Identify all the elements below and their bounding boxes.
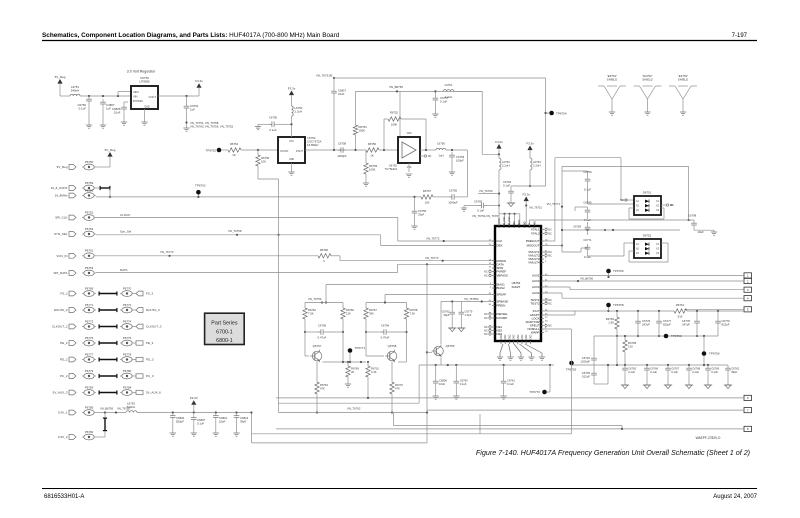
svg-text:AUX_VDD: AUX_VDD — [508, 216, 511, 228]
resistor R6756b 1K — [366, 142, 379, 158]
svg-text:1.0pF: 1.0pF — [465, 313, 472, 317]
svg-text:C6750: C6750 — [269, 116, 278, 120]
svg-text:130: 130 — [628, 344, 633, 348]
svg-text:C6768: C6768 — [692, 367, 700, 371]
svg-text:P6750: P6750 — [85, 160, 94, 164]
shield E6752 — [634, 74, 662, 115]
svg-text:VDD: VDD — [407, 133, 412, 135]
svg-text:F3.3v: F3.3v — [526, 141, 534, 145]
svg-text:C6765: C6765 — [474, 200, 483, 204]
ground tri — [685, 385, 693, 389]
svg-text:NC: NC — [548, 298, 552, 302]
connector pair P6783/P6784 5V_AUX — [53, 385, 162, 395]
resistor R6761 510 — [674, 303, 744, 319]
svg-text:WARP: WARP — [531, 331, 540, 335]
offpage 4 — [544, 293, 752, 301]
wire opamp out — [420, 149, 436, 151]
inductor L6752 — [498, 158, 510, 195]
ground fan under IC — [497, 344, 545, 360]
connector P6756 16_8MHz — [55, 188, 96, 198]
wire rail right1 — [544, 158, 634, 241]
capacitor C6750c — [562, 170, 634, 204]
ground — [449, 172, 455, 175]
svg-text:TP6770: TP6770 — [529, 390, 540, 394]
svg-text:1K: 1K — [370, 154, 374, 158]
svg-text:P6775: P6775 — [85, 336, 94, 340]
svg-text:NC: NC — [484, 316, 488, 320]
node VN_T6759 — [308, 297, 327, 304]
wire — [594, 336, 617, 365]
svg-text:GND: GND — [525, 334, 528, 340]
svg-text:R6768: R6768 — [410, 308, 418, 312]
svg-text:SHIELD: SHIELD — [642, 78, 652, 82]
resistor R6762 7.5K — [303, 303, 317, 333]
connector pair P6775/P6776 PE — [60, 336, 154, 346]
svg-text:IGK2T: IGK2T — [512, 285, 521, 289]
ground — [345, 384, 351, 387]
svg-text:P6756: P6756 — [85, 188, 94, 192]
inductor L6756 — [436, 142, 446, 158]
svg-text:P6754: P6754 — [85, 227, 94, 231]
shield E6753 — [669, 74, 697, 115]
svg-text:2.2uH: 2.2uH — [533, 163, 540, 167]
wire VN_B6756 rail — [356, 85, 483, 93]
wire — [109, 157, 111, 167]
inductor L6750 — [292, 106, 303, 137]
svg-text:R6754: R6754 — [230, 142, 239, 146]
svg-text:MODOUT: MODOUT — [527, 244, 540, 248]
ground — [86, 125, 92, 128]
connector P6782 9.3V_2 — [58, 430, 105, 440]
svg-text:1uF: 1uF — [106, 107, 111, 111]
svg-text:Schematics, Component Location: Schematics, Component Location Diagrams,… — [42, 32, 340, 39]
svg-text:39pF: 39pF — [443, 313, 449, 317]
svg-text:P6776: P6776 — [123, 336, 132, 340]
wire D6751 bottom loop — [629, 208, 664, 219]
connector P6753 SPI_DATA — [53, 266, 127, 276]
svg-text:Q6758: Q6758 — [388, 344, 397, 348]
svg-text:R6756: R6756 — [368, 142, 377, 146]
ground — [406, 174, 412, 177]
svg-text:100pF: 100pF — [456, 158, 464, 162]
capacitor C6779 — [715, 311, 730, 336]
svg-text:CLK: CLK — [497, 239, 503, 243]
testpoint TP6770 — [529, 365, 550, 394]
svg-text:1uF: 1uF — [190, 108, 195, 112]
resistor R6764 1.5K — [606, 311, 619, 337]
connector pair P6779/P6780 PC — [60, 369, 154, 379]
svg-text:DOUTA_3: DOUTA_3 — [146, 308, 160, 312]
svg-text:6700-1: 6700-1 — [216, 330, 233, 336]
svg-text:VN_T6762: VN_T6762 — [347, 407, 361, 411]
svg-text:0.47uF: 0.47uF — [381, 336, 390, 340]
svg-text:16_8_CONT: 16_8_CONT — [51, 186, 68, 190]
svg-text:DVDD: DVDD — [513, 221, 516, 228]
svg-text:R6761: R6761 — [676, 303, 685, 307]
wire iout rail — [544, 310, 610, 315]
svg-text:P6777: P6777 — [85, 352, 94, 356]
capacitor C6768 bypass — [686, 365, 700, 385]
svg-text:R6767: R6767 — [369, 308, 377, 312]
svg-text:C6794: C6794 — [381, 324, 390, 328]
svg-text:TP6754: TP6754 — [556, 112, 567, 116]
svg-text:0.1uF: 0.1uF — [197, 421, 204, 425]
svg-text:F9.3V: F9.3V — [190, 396, 198, 400]
testpoint TP6756 — [702, 336, 720, 356]
svg-text:P6782: P6782 — [85, 430, 94, 434]
svg-text:PRE_VDD: PRE_VDD — [503, 216, 506, 228]
wire — [446, 149, 468, 151]
svg-text:16.8MHz: 16.8MHz — [307, 143, 319, 147]
wire 442.9 — [252, 442, 428, 444]
wire VOUT — [158, 95, 199, 97]
power F9.3V arrow — [190, 396, 198, 413]
svg-text:C6750: C6750 — [583, 170, 592, 174]
svg-text:TP6762: TP6762 — [195, 184, 206, 188]
svg-text:CLOCK: CLOCK — [120, 213, 130, 217]
svg-text:TP6752: TP6752 — [205, 149, 216, 153]
svg-text:XVDD: XVDD — [524, 221, 527, 228]
resistor R6755 100K — [364, 150, 378, 183]
svg-text:P6779: P6779 — [85, 369, 94, 373]
ground tri — [664, 385, 672, 389]
svg-text:P6784: P6784 — [123, 385, 132, 389]
svg-text:2.2uH: 2.2uH — [295, 109, 302, 113]
wire — [379, 149, 398, 151]
svg-text:LP3985: LP3985 — [139, 80, 150, 84]
svg-text:PREIN: PREIN — [497, 304, 506, 308]
wire Y6750 out — [305, 149, 366, 151]
svg-text:1000pF: 1000pF — [448, 200, 458, 204]
svg-text:7-197: 7-197 — [732, 33, 748, 39]
svg-text:VCC: VCC — [289, 141, 294, 143]
wire vertical 427 — [426, 264, 428, 443]
resistor R6770 47K — [390, 362, 404, 414]
svg-text:C6765: C6765 — [628, 367, 636, 371]
wire — [258, 166, 279, 413]
svg-text:NC: NC — [548, 228, 552, 232]
svg-text:47K: 47K — [395, 386, 400, 390]
svg-text:VN_B6756: VN_B6756 — [389, 85, 403, 89]
wire opamp vdd — [399, 91, 401, 137]
connector pair P6773/P6774 CLKOUT — [52, 319, 162, 329]
svg-text:NC: NC — [484, 329, 488, 333]
wire 16_8MHz bus — [96, 196, 421, 198]
svg-text:C6762: C6762 — [731, 367, 739, 371]
svg-text:AUX3: AUX3 — [532, 285, 540, 289]
svg-text:VN_T6759: VN_T6759 — [308, 297, 322, 301]
wire VEN loop — [118, 92, 131, 97]
svg-text:SHIELD: SHIELD — [607, 78, 617, 82]
capacitor C6766b — [575, 200, 606, 231]
svg-text:0.47uF: 0.47uF — [318, 336, 327, 340]
wire u loop — [252, 365, 572, 434]
svg-text:VN_T6763, VN_T6756, VN_T6752: VN_T6763, VN_T6756, VN_T6752 — [190, 125, 234, 129]
connector P6750 5V_Reg — [57, 160, 110, 170]
svg-text:VMULT4: VMULT4 — [528, 261, 540, 265]
svg-text:510: 510 — [678, 315, 683, 319]
svg-text:0.1uF: 0.1uF — [650, 370, 657, 374]
svg-text:POUT: POUT — [296, 150, 303, 153]
connector P6752 SPI_CLK — [55, 210, 130, 220]
capacitor C6751 — [184, 96, 199, 128]
svg-text:820pF: 820pF — [176, 419, 184, 423]
ground — [500, 396, 506, 399]
svg-text:6800-1: 6800-1 — [216, 338, 233, 344]
inductor L6751b — [443, 83, 454, 99]
svg-text:C6766: C6766 — [583, 200, 592, 204]
svg-text:F3.3v: F3.3v — [522, 192, 530, 196]
wire Syn_Sel bus — [96, 229, 495, 246]
svg-text:0.1uF: 0.1uF — [507, 382, 514, 386]
svg-text:100: 100 — [425, 200, 430, 204]
svg-text:39K: 39K — [369, 311, 374, 315]
svg-text:C6798: C6798 — [688, 214, 697, 218]
svg-text:Syn_Sel: Syn_Sel — [120, 230, 132, 234]
wire VCO_IN bus — [96, 250, 318, 257]
oscillator Y6750 — [278, 136, 322, 163]
svg-text:FS_3: FS_3 — [146, 292, 154, 296]
ground tri — [448, 328, 456, 332]
svg-text:NC: NC — [620, 198, 624, 202]
svg-text:P6753: P6753 — [85, 266, 94, 270]
capacitor C6762 bypass — [725, 365, 739, 385]
svg-text:GND: GND — [504, 334, 507, 340]
ground tri — [724, 385, 732, 389]
svg-text:.012uF: .012uF — [581, 374, 590, 378]
power F3.0v arrow — [495, 140, 503, 158]
wire right pack rail — [561, 229, 680, 231]
capacitor C6760 0.1uF — [454, 365, 469, 396]
power F3.3v small — [522, 192, 542, 209]
wire feedback up — [384, 119, 388, 150]
wire spbase — [441, 297, 495, 303]
svg-text:1200pF: 1200pF — [581, 359, 591, 363]
ground — [100, 125, 106, 128]
svg-text:0.1uF: 0.1uF — [460, 382, 467, 386]
svg-text:VN_T6772: VN_T6772 — [426, 237, 440, 241]
capacitor C6765 bypass — [622, 365, 636, 385]
svg-text:0.1uF: 0.1uF — [671, 370, 678, 374]
svg-text:NC: NC — [548, 254, 552, 258]
shield E6751 — [598, 74, 626, 115]
svg-text:P6783: P6783 — [85, 385, 94, 389]
wire q6759 emitter — [419, 358, 554, 366]
svg-text:GND: GND — [500, 334, 503, 340]
svg-text:P6778: P6778 — [123, 352, 132, 356]
svg-text:AUX2: AUX2 — [532, 279, 540, 283]
svg-text:BIAS2: BIAS2 — [497, 286, 506, 290]
offpage 8 — [276, 426, 752, 431]
svg-text:NC: NC — [484, 270, 488, 274]
text 3.0 Volt Regulator — [127, 70, 156, 74]
svg-text:VCP: VCP — [529, 223, 532, 228]
ground — [411, 226, 417, 229]
jumper arrows vertical — [103, 413, 107, 438]
capacitor C6813 — [234, 413, 249, 434]
wire cell2 top — [366, 301, 407, 303]
svg-text:P6771: P6771 — [85, 303, 94, 307]
capacitor C6817 — [331, 78, 346, 150]
wire — [454, 91, 499, 154]
nc pin — [420, 154, 432, 158]
capacitor C6804 — [170, 413, 185, 434]
wire — [413, 196, 449, 198]
op-amp U6752 — [385, 133, 420, 171]
svg-text:2.2uH: 2.2uH — [445, 95, 452, 99]
svg-text:VN_B6766: VN_B6766 — [580, 277, 594, 281]
svg-text:F3.0v: F3.0v — [495, 140, 503, 144]
svg-text:NC: NC — [484, 312, 488, 316]
svg-text:TP6750: TP6750 — [671, 334, 682, 338]
resistor R6710 3.3K — [366, 362, 380, 399]
svg-text:SHIELD: SHIELD — [678, 78, 688, 82]
svg-text:VN_T6771: VN_T6771 — [547, 202, 561, 206]
capacitor C6778 — [682, 311, 700, 337]
wire CLOCK bus — [96, 218, 495, 243]
resistor R6753 100K — [353, 91, 367, 151]
testpoint TP6755 — [566, 361, 594, 372]
capacitor C6764 — [503, 180, 514, 203]
resistor R6757 100 — [421, 189, 433, 205]
offpage 7 — [427, 408, 752, 413]
capacitor C6765b — [464, 200, 500, 213]
svg-text:R6763: R6763 — [320, 383, 328, 387]
svg-text:PE_2: PE_2 — [60, 341, 68, 345]
connector P6754 SYN_SEL — [54, 227, 132, 237]
svg-text:NC: NC — [484, 325, 488, 329]
svg-text:TC75HD4: TC75HD4 — [385, 167, 398, 171]
jumper arrows — [100, 186, 111, 190]
capacitor C6766 bypass — [644, 365, 658, 385]
testpoint TP6754 — [544, 111, 566, 116]
svg-text:GND: GND — [508, 334, 511, 340]
svg-text:NC: NC — [670, 203, 674, 207]
svg-text:C6806: C6806 — [439, 379, 447, 383]
capacitor C6750 — [77, 96, 91, 125]
ground — [711, 232, 717, 235]
svg-text:VEN: VEN — [133, 90, 139, 94]
power 5V_Reg arrow 2 — [105, 148, 116, 157]
svg-text:C6766: C6766 — [650, 367, 658, 371]
ground tri — [643, 385, 651, 389]
svg-text:Part Series: Part Series — [211, 321, 238, 327]
svg-text:0.1uF: 0.1uF — [711, 370, 718, 374]
wire 9.3V rail — [137, 411, 252, 413]
wire bias rail2 — [385, 295, 495, 303]
svg-text:2K: 2K — [351, 370, 354, 374]
ground — [213, 433, 219, 436]
svg-text:C6769: C6769 — [711, 367, 719, 371]
capacitor C6794 — [365, 324, 408, 340]
ground tri — [507, 203, 515, 207]
capacitor C6776 — [635, 311, 650, 337]
capacitor C6806 10uF — [433, 365, 448, 396]
svg-text:1.5K: 1.5K — [608, 320, 614, 324]
capacitor C6792 39pF — [442, 302, 455, 329]
svg-text:VN_T6758: VN_T6758 — [228, 229, 242, 233]
wire long 425 — [394, 413, 624, 431]
svg-text:P6785: P6785 — [85, 405, 94, 409]
power F3.3v osc — [288, 86, 296, 106]
ground — [183, 128, 189, 131]
wire D6752 loops — [629, 243, 668, 262]
wire DATA bus — [96, 263, 495, 272]
svg-text:F3.3v: F3.3v — [288, 86, 296, 90]
regulator U6750 — [131, 76, 158, 109]
svg-text:247pF: 247pF — [682, 322, 690, 326]
svg-text:VN_T6769: VN_T6769 — [479, 189, 493, 193]
svg-text:NC: NC — [548, 324, 552, 328]
svg-text:VN_T6755A: VN_T6755A — [464, 297, 479, 301]
wire top rail — [334, 77, 546, 79]
svg-text:DEX: DEX — [497, 244, 503, 248]
wire cell1 top — [305, 302, 343, 304]
wire down to filter — [467, 150, 469, 197]
ground — [233, 433, 239, 436]
svg-text:PREFOUT: PREFOUT — [526, 239, 540, 243]
svg-text:0.1uF: 0.1uF — [503, 183, 510, 187]
svg-text:PC_3: PC_3 — [146, 374, 154, 378]
resistor R6769 2K — [346, 362, 360, 384]
svg-text:.01uF: .01uF — [113, 111, 121, 115]
wire filter rail — [609, 310, 675, 312]
wire — [241, 149, 278, 151]
svg-text:5V_AUX_3: 5V_AUX_3 — [53, 391, 68, 395]
svg-text:5V_Reg: 5V_Reg — [55, 75, 66, 79]
svg-text:PE_3: PE_3 — [146, 341, 154, 345]
testpoint TP6752 — [205, 148, 228, 153]
svg-text:CLKOUT_3: CLKOUT_3 — [146, 325, 162, 329]
wire cap row rail — [594, 356, 728, 366]
resistor R6768 7.5K — [404, 303, 418, 333]
svg-text:P6774: P6774 — [123, 319, 132, 323]
svg-text:540nH: 540nH — [127, 405, 135, 409]
svg-text:39pF: 39pF — [731, 370, 737, 374]
svg-text:0.1uF: 0.1uF — [440, 99, 447, 103]
wire cell2 sides — [366, 332, 407, 362]
resistor R6756 10K — [256, 150, 270, 166]
svg-text:1000pF: 1000pF — [337, 154, 347, 158]
svg-text:31uF: 31uF — [338, 92, 345, 96]
capacitor C6756 33pF — [412, 197, 427, 226]
svg-text:NC: NC — [548, 302, 552, 306]
svg-text:GND: GND — [144, 106, 150, 109]
wire MODIN bus — [331, 256, 495, 262]
connector pair P6771/P6772 DOUTA — [54, 303, 160, 313]
capacitor C6755 1000pF — [448, 188, 458, 204]
svg-text:TP6756: TP6756 — [709, 352, 720, 356]
capacitor C6753 100pF — [449, 152, 464, 172]
wire — [80, 95, 131, 97]
svg-text:1K: 1K — [232, 153, 236, 157]
wire bias rail1 — [326, 285, 495, 303]
capacitor C6808 — [112, 102, 128, 122]
header rule — [42, 40, 757, 42]
svg-text:L6751: L6751 — [445, 83, 453, 87]
capacitor C6810 — [213, 413, 228, 434]
wire warp — [544, 329, 572, 363]
svg-text:0.1uF: 0.1uF — [628, 370, 635, 374]
wire — [511, 78, 546, 186]
svg-text:GND: GND — [521, 334, 524, 340]
svg-text:C6792: C6792 — [442, 310, 450, 314]
power 5V_Reg arrow — [55, 75, 66, 96]
wire left drop — [279, 365, 420, 403]
svg-text:PD_VDD: PD_VDD — [498, 218, 501, 228]
svg-text:16_8MHz: 16_8MHz — [55, 194, 68, 198]
svg-text:3.0 Volt Regulator: 3.0 Volt Regulator — [127, 70, 156, 74]
